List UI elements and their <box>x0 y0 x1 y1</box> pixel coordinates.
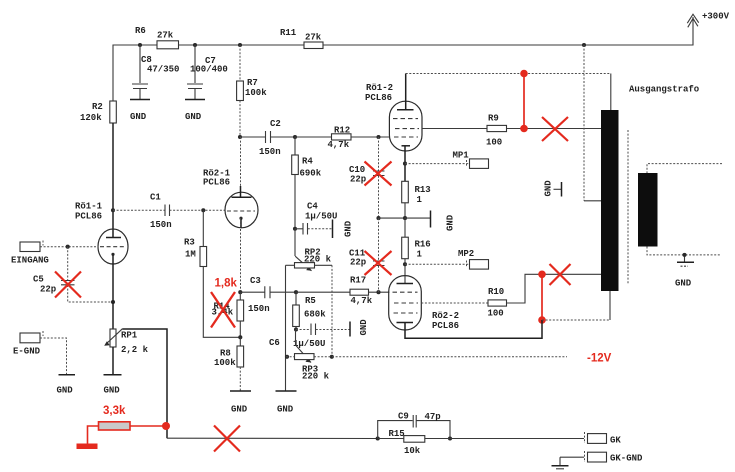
svg-text:R6: R6 <box>135 26 146 36</box>
resistor R12 <box>328 126 352 151</box>
svg-text:1: 1 <box>417 195 423 205</box>
svg-text:27k: 27k <box>305 33 322 43</box>
red X on bottom rail <box>214 426 240 452</box>
svg-text:R5: R5 <box>305 296 316 306</box>
svg-text:R4: R4 <box>302 157 313 167</box>
wire R9 to transformer <box>507 128 602 130</box>
resistor R7 <box>237 45 268 101</box>
svg-text:R2: R2 <box>92 102 103 112</box>
ground RP1 <box>104 375 122 396</box>
svg-text:Rö1-1: Rö1-1 <box>75 202 103 212</box>
svg-text:PCL86: PCL86 <box>75 212 102 222</box>
capacitor C7 <box>187 45 228 99</box>
svg-text:GND: GND <box>231 405 248 415</box>
resistor R17 <box>350 276 373 306</box>
capacitor C6 <box>269 324 350 350</box>
tube Ro2-2 pentode <box>389 276 459 331</box>
svg-text:MP2: MP2 <box>458 249 474 259</box>
svg-text:R15: R15 <box>389 429 405 439</box>
svg-text:PCL86: PCL86 <box>365 93 392 103</box>
wire right feedback rail <box>331 265 333 356</box>
svg-text:R11: R11 <box>280 28 297 38</box>
svg-text:690k: 690k <box>300 169 322 179</box>
svg-text:150n: 150n <box>150 220 172 230</box>
ground GK-GND <box>552 457 569 469</box>
svg-text:Ausgangstrafo: Ausgangstrafo <box>629 85 699 95</box>
node R14 bottom junction <box>238 335 242 339</box>
svg-text:PCL86: PCL86 <box>203 178 230 188</box>
resistor 3,3k (red added part) <box>88 422 166 444</box>
resistor R16 <box>402 218 431 283</box>
svg-text:4,7k: 4,7k <box>328 140 350 150</box>
wire EINGANG to grid <box>40 246 98 248</box>
svg-text:47/350: 47/350 <box>147 65 179 75</box>
ground R8 <box>230 391 251 415</box>
svg-text:R10: R10 <box>488 287 504 297</box>
svg-text:220 k: 220 k <box>302 372 330 382</box>
svg-text:EINGANG: EINGANG <box>11 256 49 266</box>
node MP1 junction <box>403 162 407 166</box>
svg-text:680k: 680k <box>304 310 326 320</box>
svg-text:GND: GND <box>130 112 147 122</box>
wire top B+ rail left segment <box>113 45 157 101</box>
node R3 top junction <box>201 208 205 212</box>
wire grid2 line C3 to R17 <box>296 291 350 293</box>
capacitor C1 <box>113 193 226 231</box>
ground C4 (bar+rotated label) <box>333 220 354 239</box>
svg-text:-12V: -12V <box>587 353 612 365</box>
svg-text:R8: R8 <box>220 349 231 359</box>
tube Ro1-1 triode <box>75 202 128 267</box>
svg-text:R9: R9 <box>488 114 499 124</box>
wire R17 to tube Ro2-2 grid <box>369 291 390 293</box>
svg-text:C5: C5 <box>33 275 44 285</box>
ground C7 <box>185 100 205 123</box>
node C9 right junction <box>448 436 452 440</box>
svg-text:C6: C6 <box>269 338 280 348</box>
node C1 tap on anode rail <box>111 208 115 212</box>
svg-text:R7: R7 <box>247 78 258 88</box>
wire primary top lead <box>610 74 612 111</box>
node R4 top <box>293 135 297 139</box>
svg-text:1M: 1M <box>185 250 196 260</box>
svg-text:100: 100 <box>488 309 504 319</box>
resistor R5 <box>293 290 327 329</box>
wire top dotted line to transformer <box>406 73 611 75</box>
capacitor C10 <box>349 137 385 218</box>
svg-text:GND: GND <box>446 214 456 231</box>
node C4 junction <box>293 227 297 231</box>
wire RP1 bottom to ground <box>112 347 114 374</box>
wire secondary top lead <box>647 164 722 173</box>
connector GK-GND <box>560 451 643 464</box>
svg-text:R3: R3 <box>184 238 195 248</box>
node cathode tap <box>111 300 115 304</box>
svg-text:150n: 150n <box>259 147 281 157</box>
capacitor C8 <box>132 45 179 99</box>
resistor R13 <box>402 181 431 218</box>
resistor R2 <box>80 101 116 123</box>
svg-text:150n: 150n <box>248 304 270 314</box>
svg-text:GND: GND <box>544 180 554 197</box>
node R5 bottom / C6 <box>294 327 298 331</box>
transformer core dashed line <box>627 130 629 284</box>
svg-text:22p: 22p <box>350 175 366 185</box>
capacitor C9 (bypass) <box>378 412 450 439</box>
node C10-R13 link <box>376 216 405 220</box>
wire R3 bottom L-bend to R14 node <box>203 267 240 338</box>
red X over C5 <box>55 272 81 298</box>
wire top rail right segment <box>323 17 693 45</box>
ground left rail <box>276 391 297 415</box>
wire Ro1-2 screen to R9 <box>422 128 487 130</box>
+300V supply arrow <box>687 12 729 28</box>
capacitor C5 <box>33 247 113 302</box>
resistor R3 <box>184 210 207 266</box>
node cathode C3 junction <box>238 290 242 294</box>
svg-text:100k: 100k <box>245 88 267 98</box>
svg-text:PCL86: PCL86 <box>432 321 459 331</box>
resistor R4 <box>292 137 322 229</box>
connector E-GND <box>13 331 43 357</box>
svg-text:GK: GK <box>610 436 621 446</box>
svg-text:22p: 22p <box>350 258 366 268</box>
wire rail to GK connector <box>425 438 584 440</box>
resistor R14 <box>212 292 244 337</box>
node C5 tap <box>66 245 70 249</box>
ground midpoint (bar+rotated label) <box>405 211 456 232</box>
svg-text:R13: R13 <box>415 185 431 195</box>
svg-text:GND: GND <box>185 112 202 122</box>
test point MP2 <box>405 249 489 269</box>
wire rail through R15 <box>378 438 404 440</box>
wire Ro2-1 cathode down <box>240 218 242 292</box>
tube Ro1-2 pentode <box>365 83 422 151</box>
capacitor C3 <box>240 276 296 314</box>
svg-text:GND: GND <box>359 319 369 336</box>
svg-text:220 k: 220 k <box>304 255 332 265</box>
wire Ro1-2 anode lead up <box>405 74 407 110</box>
resistor R8 <box>214 337 244 390</box>
svg-text:E-GND: E-GND <box>13 347 41 357</box>
potentiometer RP2 <box>286 248 333 271</box>
resistor R6 <box>135 26 179 49</box>
connector EINGANG <box>11 241 49 266</box>
ground secondary <box>675 253 694 289</box>
svg-text:C4: C4 <box>307 202 318 212</box>
wire R10 to transformer (with bend) <box>507 274 602 303</box>
resistor R11 <box>280 28 323 49</box>
node red dot on rail <box>162 422 170 430</box>
wire C2 node to R12 <box>295 136 332 138</box>
wire Ro2-2 cathode to transformer bottom <box>405 320 542 338</box>
svg-text:R16: R16 <box>415 240 431 250</box>
node MP2 junction <box>403 262 407 266</box>
resistor R10 <box>488 287 507 319</box>
node grid rail junction <box>376 135 380 139</box>
svg-text:100k: 100k <box>214 358 236 368</box>
svg-text:22p: 22p <box>40 285 56 295</box>
wire -12V dotted rail <box>286 356 567 358</box>
svg-text:3,3k: 3,3k <box>103 405 126 417</box>
svg-text:C1: C1 <box>150 193 161 203</box>
svg-text:RP1: RP1 <box>121 331 138 341</box>
node R13-R16 midpoint <box>403 216 407 220</box>
svg-text:100/400: 100/400 <box>190 65 228 75</box>
svg-text:GND: GND <box>675 279 692 289</box>
svg-text:4,7k: 4,7k <box>351 296 373 306</box>
node right rail at -12V line <box>330 355 334 359</box>
wire R7 to C2 node <box>239 101 241 138</box>
wire R2 to tube Ro1-1 anode <box>112 123 114 237</box>
svg-text:Rö1-2: Rö1-2 <box>366 83 393 93</box>
wire cathode node to transformer bottom lead <box>542 319 610 321</box>
ground red thick bar <box>77 444 98 450</box>
svg-text:1: 1 <box>417 250 423 260</box>
svg-text:120k: 120k <box>80 113 102 123</box>
red X on lower anode wire <box>550 264 571 285</box>
svg-text:Rö2-2: Rö2-2 <box>432 311 459 321</box>
svg-text:100: 100 <box>486 138 502 148</box>
red X over R14 <box>211 292 235 328</box>
wire left feedback rail <box>285 265 287 390</box>
svg-text:GND: GND <box>104 386 121 396</box>
resistor R15 <box>389 429 425 456</box>
svg-text:R17: R17 <box>350 276 366 286</box>
wire Ro1-2 cathode down <box>404 146 406 182</box>
svg-text:GND: GND <box>57 386 74 396</box>
svg-text:2,2 k: 2,2 k <box>121 345 149 355</box>
test point MP1 <box>405 151 489 169</box>
svg-text:47p: 47p <box>425 412 441 422</box>
wire bottom feedback rail <box>167 437 378 439</box>
svg-text:C9: C9 <box>398 412 409 422</box>
connector GK <box>585 432 622 446</box>
tube Ro2-1 triode <box>203 169 258 229</box>
red jumper bottom (added wire) <box>538 271 546 324</box>
capacitor C11 <box>349 218 385 292</box>
wire Ro2-2 screen to R10 <box>421 302 488 304</box>
svg-text:C3: C3 <box>250 276 261 286</box>
node C11 rail bottom <box>376 290 380 294</box>
svg-text:R12: R12 <box>334 126 350 136</box>
potentiometer RP3 <box>295 330 330 382</box>
red X over C11 <box>365 251 392 275</box>
node left rail at -12V line <box>285 355 289 359</box>
wire B+ feed to primary center tap <box>584 45 601 201</box>
wire top rail mid <box>179 44 305 46</box>
red X over C10 <box>365 162 392 186</box>
transformer secondary <box>638 173 658 247</box>
node top rail junction dots <box>138 43 586 47</box>
svg-text:GK-GND: GK-GND <box>610 454 643 464</box>
wire Ro2-1 top lead <box>240 137 242 193</box>
svg-text:GND: GND <box>277 405 294 415</box>
svg-text:10k: 10k <box>404 446 421 456</box>
svg-text:27k: 27k <box>157 31 174 41</box>
node C9 left junction <box>376 436 380 440</box>
ground E-GND <box>57 375 76 396</box>
svg-text:C10: C10 <box>349 165 365 175</box>
wire E-GND to ground <box>40 338 67 374</box>
wire secondary bottom lead <box>647 247 721 255</box>
ground C8 <box>130 100 150 123</box>
wire RP1 wiper to bottom rail <box>123 329 168 438</box>
svg-text:GND: GND <box>344 220 354 237</box>
svg-text:MP1: MP1 <box>453 151 470 161</box>
wire R4 node to RP2 wiper <box>294 229 296 256</box>
red X on anode wire <box>542 117 568 141</box>
capacitor C4 <box>295 202 337 235</box>
svg-text:C8: C8 <box>141 55 152 65</box>
node C2 junction <box>238 135 242 139</box>
svg-text:+300V: +300V <box>702 12 730 22</box>
transformer Ausgangstrafo primary <box>601 110 619 291</box>
svg-text:1,8k: 1,8k <box>215 278 238 290</box>
potentiometer RP1 <box>104 329 148 355</box>
ground C6 (bar+rotated label) <box>350 319 369 337</box>
wire primary bottom lead <box>609 291 611 320</box>
wire cathode to RP1 <box>112 266 114 329</box>
capacitor C2 <box>240 119 295 157</box>
red jumper top (added wire) <box>520 70 528 133</box>
ground near transformer (bar+rotated label) <box>544 180 562 197</box>
resistor R9 <box>486 114 507 148</box>
svg-text:C2: C2 <box>270 119 281 129</box>
wire R12 to tube Ro1-2 grid <box>351 136 390 138</box>
